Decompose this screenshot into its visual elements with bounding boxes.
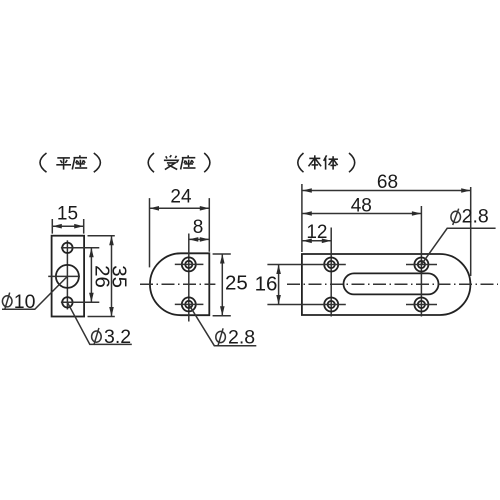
dim 15 extension lines — [52, 219, 83, 234]
dim 48 arrows — [302, 211, 421, 216]
leader phi3.2 — [67, 302, 131, 344]
part3 hole top-right — [414, 258, 428, 272]
part3 outline — [302, 254, 470, 315]
part2 dash-dot centerline — [140, 283, 215, 285]
svg-text:26: 26 — [90, 265, 113, 288]
phi symbol for phi3.2 — [92, 328, 102, 345]
part3 left holes h-centerline / ext 16 bottom row — [267, 304, 345, 306]
dim 35 line — [111, 236, 113, 317]
dim 26 line — [90, 248, 92, 302]
svg-text:15: 15 — [57, 204, 78, 225]
part1 top hole centerline / ext for 26 — [61, 247, 99, 249]
dim 15 line — [52, 225, 83, 227]
part1 bottom hole centerline / ext for 26 — [61, 301, 99, 303]
part3 dash-dot centerline — [287, 283, 498, 285]
part1 plate outline — [52, 236, 85, 317]
kanji tai — [324, 155, 338, 169]
dim 12 arrows — [302, 239, 331, 244]
part3 hole bottom-left — [324, 298, 338, 312]
kanji za (1) — [72, 155, 87, 169]
part3 right holes h-centerlines — [406, 265, 437, 305]
label (ukeza) paren right — [204, 153, 210, 172]
phi symbol part3 — [451, 209, 461, 225]
dim 12 line — [302, 240, 331, 242]
dim 24 extension lines — [150, 198, 210, 267]
kanji hira — [56, 158, 71, 170]
part2 bottom hole — [182, 297, 196, 311]
svg-text:12: 12 — [306, 222, 327, 243]
part1 large hole centerline — [48, 275, 80, 277]
leader phi10 — [2, 276, 67, 309]
dim 8 arrows — [189, 237, 210, 242]
part3 left holes vertical centerline — [330, 228, 332, 317]
part3 hole top-left — [324, 258, 338, 272]
svg-text:68: 68 — [377, 172, 398, 193]
svg-text:10: 10 — [14, 291, 36, 313]
dim 48 line — [302, 213, 421, 215]
part2 bottom hole h-centerline — [175, 303, 204, 305]
part2 top hole h-centerline — [175, 263, 204, 265]
part3 hole bottom-right — [414, 298, 428, 312]
dim 25 extension lines — [213, 254, 231, 316]
dim 25 line — [221, 254, 223, 316]
svg-text:2.8: 2.8 — [462, 205, 489, 227]
dim 68 line — [302, 190, 470, 192]
kanji uke — [164, 155, 178, 169]
kanji hon — [309, 155, 322, 169]
dim 24 line — [150, 207, 210, 209]
dim 25 arrows — [220, 254, 225, 316]
part1 vertical centerline — [66, 240, 68, 309]
label (hontai) paren left — [298, 153, 304, 172]
part1 top hole — [62, 243, 72, 253]
part3 slot — [344, 273, 439, 294]
part3 left holes h-centerline / ext 16 top row — [267, 264, 345, 266]
label (hiraza) paren left — [40, 153, 47, 172]
svg-text:3.2: 3.2 — [104, 326, 131, 348]
part2 hole vertical centerline — [188, 234, 190, 322]
part2 outline — [150, 253, 209, 315]
kanji za (2) — [181, 155, 196, 169]
part1 bottom hole — [62, 297, 72, 307]
svg-text:48: 48 — [351, 196, 372, 217]
label (hiraza) paren right — [94, 153, 101, 172]
part3 right holes vertical centerline — [420, 206, 422, 317]
leader phi2.8 part3 — [421, 228, 495, 264]
svg-text:8: 8 — [193, 217, 204, 238]
part2 top hole — [182, 257, 196, 271]
svg-text:2.8: 2.8 — [228, 327, 255, 349]
part1 large hole phi10 — [56, 265, 79, 288]
label (ukeza) paren left — [148, 153, 154, 172]
dim 68 arrows — [302, 188, 470, 193]
svg-text:25: 25 — [225, 271, 248, 294]
dim 16 line — [278, 265, 280, 305]
phi symbol part2 — [216, 328, 226, 345]
label (hontai) paren right — [349, 153, 355, 172]
phi symbol for phi10 — [2, 293, 12, 310]
leader phi2.8 part2 — [189, 304, 256, 345]
dim 68 extension lines — [302, 184, 471, 276]
svg-text:24: 24 — [170, 186, 192, 207]
dim 35 arrows — [109, 236, 114, 317]
svg-text:16: 16 — [255, 272, 278, 295]
dim 15 arrows — [52, 224, 83, 229]
dim 8 line — [189, 238, 210, 240]
dim 26 arrows — [89, 248, 94, 302]
dim 35 extension lines — [88, 236, 115, 317]
dim 16 arrows — [276, 265, 281, 305]
dim 24 arrows — [150, 206, 210, 211]
